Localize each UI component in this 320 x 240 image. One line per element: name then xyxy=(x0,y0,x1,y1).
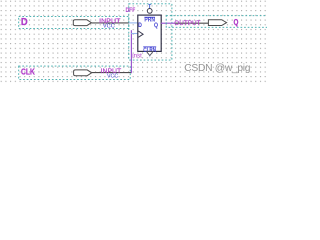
wire: D net (flag to stub) xyxy=(91,22,129,24)
selection box: input pin D xyxy=(19,17,129,29)
svg-text:Q: Q xyxy=(234,18,239,27)
wire: output pin lead (gray) xyxy=(175,22,209,24)
svg-text:DFF: DFF xyxy=(126,7,136,14)
svg-text:D: D xyxy=(21,17,28,28)
selection box: input pin CLK xyxy=(19,66,131,80)
svg-text:CLK: CLK xyxy=(21,67,35,77)
wire: CLK net vertical (purple) xyxy=(130,30,132,73)
svg-text:Q: Q xyxy=(154,22,158,29)
selection box: flip-flop DFF xyxy=(129,4,172,60)
svg-text:VCC: VCC xyxy=(103,24,115,30)
input pin D flag xyxy=(73,20,91,26)
svg-text:inst: inst xyxy=(132,52,142,59)
wire: Q net (purple segment from flip-flop) xyxy=(161,22,175,24)
CLRN pin stub below triangle xyxy=(149,56,151,58)
CLRN triangle below body xyxy=(147,52,153,56)
flip-flop pin stub: D (light blue) xyxy=(129,22,138,24)
wire: CLK net horizontal xyxy=(92,72,132,74)
clock wedge xyxy=(138,31,143,37)
svg-text:VCC: VCC xyxy=(107,73,118,79)
svg-text:CSDN @w_pig: CSDN @w_pig xyxy=(184,63,250,74)
input pin CLK flag xyxy=(74,70,92,76)
svg-text:OUTPUT: OUTPUT xyxy=(174,20,200,27)
PRE bubble xyxy=(147,9,152,14)
flip-flop pin stub: clock (light blue) xyxy=(131,33,138,35)
output pin Q flag xyxy=(208,20,226,26)
PRE pin stub above bubble xyxy=(149,4,151,9)
flip-flop body DFF xyxy=(138,15,161,51)
selection box: output pin Q xyxy=(166,16,272,28)
svg-text:D: D xyxy=(138,22,142,29)
